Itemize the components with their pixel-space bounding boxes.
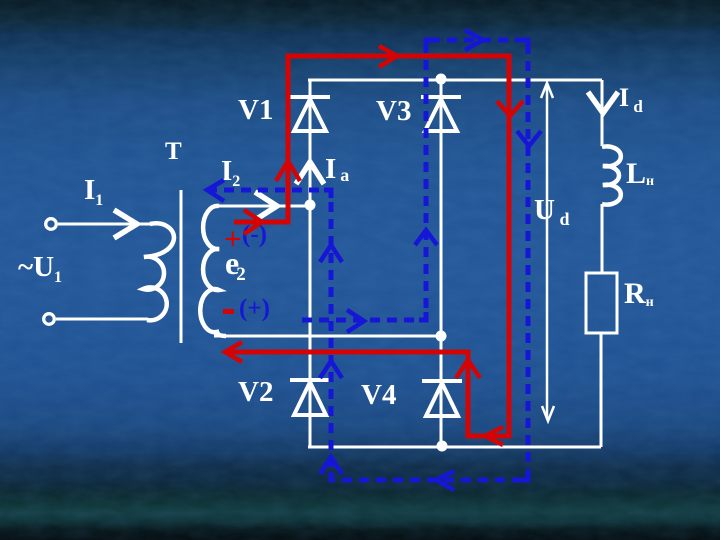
- node junction bottom: [437, 441, 448, 452]
- wire: secondary top lead: [214, 205, 310, 208]
- blue arrow up V3 parallel: [415, 230, 437, 245]
- blue arrowhead I2 (left end): [207, 180, 224, 201]
- svg-text:V1: V1: [238, 94, 273, 126]
- svg-text:V4: V4: [361, 379, 396, 411]
- svg-text:V2: V2: [238, 376, 273, 408]
- terminal lower input: [44, 314, 55, 325]
- red arrow up V4 parallel: [456, 360, 480, 378]
- blue arrow right top dashed: [465, 30, 483, 50]
- terminal upper input: [46, 219, 57, 230]
- node junction secondary bottom: [436, 331, 447, 342]
- blue arrow up V2 parallel 3: [320, 457, 342, 474]
- blue arrow up V2 parallel 2: [320, 361, 342, 378]
- wire: resistor to bottom bus: [600, 333, 603, 447]
- transformer T primary winding: [143, 223, 174, 320]
- red arrowhead into transformer (left end): [225, 342, 242, 362]
- red arrow left bottom: [485, 427, 503, 445]
- arrow on secondary top lead: [255, 192, 277, 220]
- inductor Ln: [602, 146, 621, 204]
- arrow Id: [588, 92, 618, 113]
- wire: primary bottom lead: [56, 318, 148, 321]
- wire: top DC bus: [308, 79, 602, 82]
- blue arrow up V2 parallel 1: [320, 245, 342, 262]
- arrow I1: [114, 210, 137, 238]
- wire: V1-V2 branch: [309, 80, 312, 447]
- wire: inductor to resistor: [601, 204, 604, 273]
- transformer T core: [180, 190, 183, 343]
- svg-text:+: +: [224, 221, 242, 256]
- diode V3: [421, 97, 461, 131]
- diode V2: [290, 380, 330, 415]
- blue arrow down right dashed: [517, 131, 541, 146]
- resistor Rn: [586, 273, 617, 333]
- blue dashed conduction path negative half-cycle: [207, 40, 528, 480]
- node junction secondary top: [305, 200, 316, 211]
- red conduction path positive half-cycle: [225, 56, 509, 436]
- blue arrow left bottom dashed: [436, 471, 454, 490]
- wire: secondary bottom lead: [214, 335, 441, 338]
- arrow Ia: [296, 162, 324, 184]
- diode V1: [290, 97, 330, 131]
- wire: V3-V4 branch: [440, 79, 443, 446]
- wire: primary top lead: [58, 223, 152, 226]
- red arrow on secondary top (right): [244, 210, 262, 234]
- node junction top: [436, 74, 447, 85]
- svg-text:T: T: [165, 138, 182, 165]
- red arrow down load: [497, 101, 523, 116]
- blue arrow right toward V3 branch: [347, 310, 364, 332]
- diode V4: [422, 381, 462, 416]
- wire: load branch top: [601, 80, 604, 146]
- label minus-plus lower: [223, 309, 234, 314]
- wire: bottom DC bus: [308, 446, 601, 449]
- transformer T secondary winding: [200, 206, 226, 336]
- red arrow right top bus: [379, 46, 397, 67]
- svg-text:(+): (+): [239, 295, 270, 322]
- red arrow up V1 parallel: [276, 161, 300, 181]
- measurement arrow Ud: [541, 83, 554, 421]
- svg-text:V3: V3: [376, 95, 411, 127]
